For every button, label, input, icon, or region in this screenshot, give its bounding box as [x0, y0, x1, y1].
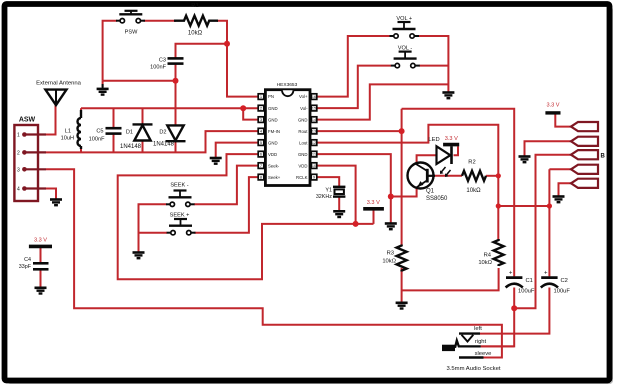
svg-text:Vol+: Vol+: [299, 94, 308, 99]
svg-text:C4: C4: [24, 257, 31, 263]
wire C5 stem top: [113, 108, 115, 128]
ground G8 emitter/pin11: [385, 224, 397, 230]
wire tag1 from 3.3V: [555, 113, 571, 127]
svg-text:SEEK -: SEEK -: [170, 182, 188, 188]
resistor R2: [462, 171, 486, 181]
svg-text:SS8050: SS8050: [426, 196, 448, 202]
svg-text:14: 14: [312, 117, 317, 122]
wire collector to LED anode: [417, 155, 436, 164]
node junction Lout/C link left: [496, 203, 501, 208]
svg-text:1N4148: 1N4148: [153, 141, 175, 147]
node tag3: [571, 150, 598, 159]
svg-text:13: 13: [312, 129, 317, 134]
svg-text:10kΩ: 10kΩ: [188, 31, 203, 37]
svg-text:10kΩ: 10kΩ: [466, 188, 481, 194]
svg-text:PN: PN: [268, 94, 274, 99]
antenna: [45, 90, 66, 106]
svg-text:3.3 V: 3.3 V: [367, 200, 380, 206]
svg-text:PSW: PSW: [125, 30, 138, 36]
ground G11 tag5: [553, 197, 565, 203]
svg-text:Q1: Q1: [426, 188, 435, 194]
svg-text:External Antenna: External Antenna: [36, 81, 82, 87]
capacitor C1 100uF: [506, 270, 535, 294]
wire top rail to chip pin2: [81, 107, 258, 109]
wire L1 bottom lead: [80, 146, 82, 152]
svg-text:D1: D1: [126, 129, 133, 135]
svg-text:GND: GND: [298, 152, 308, 157]
svg-text:4: 4: [17, 187, 20, 193]
svg-text:SEEK +: SEEK +: [170, 213, 190, 219]
svg-text:RCLK: RCLK: [296, 175, 308, 180]
wire C2 bottom to left terminal: [480, 288, 549, 334]
svg-text:C3: C3: [159, 58, 166, 64]
wire tag5 from ground: [559, 183, 572, 195]
wire rail branch to pin3: [243, 108, 257, 119]
svg-text:100uF: 100uF: [518, 288, 535, 294]
wire R1 right to chip pin1: [217, 21, 258, 97]
wire pin5 to ground: [216, 143, 258, 157]
wire C1-C2 top link: [498, 205, 549, 207]
wire R2 right to column: [486, 175, 498, 177]
ground G2 chip pin5: [210, 158, 222, 164]
wire C2 column to tag4: [549, 168, 571, 170]
svg-text:Vol-: Vol-: [300, 106, 308, 111]
svg-text:VDD: VDD: [298, 163, 307, 168]
wire pin12 Lout to R2/R4 column: [317, 125, 499, 239]
wire C3 bottom to D2 column: [175, 64, 177, 126]
node tag2: [571, 137, 598, 146]
svg-text:GND: GND: [268, 106, 278, 111]
crystal Y1 32KHz: [316, 187, 346, 200]
switch SEEK-: [166, 191, 195, 207]
svg-text:Rout: Rout: [298, 129, 308, 134]
power 3.3V P2 LED: [443, 143, 459, 147]
node tag4: [571, 165, 598, 174]
wire D1 bottom lead: [142, 141, 144, 153]
wire pin9 to Y1: [317, 177, 340, 186]
wire ASW pin1 to antenna: [46, 104, 56, 135]
wire VOL+ right to ground column: [419, 36, 449, 92]
switch VOL+: [390, 22, 420, 38]
wire right terminal red: [481, 345, 515, 347]
wire base to R2: [434, 175, 462, 177]
wire VOL- right: [419, 65, 448, 67]
switch SEEK+: [167, 219, 196, 235]
svg-text:1: 1: [17, 133, 20, 139]
wire emitter to ground column: [391, 188, 417, 197]
ground G7 VOL switches: [442, 93, 454, 99]
wire C4 3.3V stem: [40, 246, 42, 263]
capacitor C5: [106, 128, 122, 133]
switch VOL-: [391, 52, 420, 68]
wire tag2 from ground: [525, 141, 572, 155]
wire PSW left to ground/C3 net: [103, 21, 117, 81]
switch PSW: [116, 11, 145, 23]
svg-text:GND: GND: [298, 117, 308, 122]
wire pin16 to VOL+: [317, 36, 391, 97]
wire pin6 VDD long route to 3.3V: [118, 154, 374, 279]
svg-text:Lout: Lout: [299, 140, 308, 145]
node junction emitter/gnd: [388, 194, 394, 200]
svg-text:R4: R4: [484, 252, 492, 258]
svg-text:3.3 V: 3.3 V: [34, 238, 47, 244]
svg-text:3.3 V: 3.3 V: [445, 136, 458, 142]
connector ASW: [14, 117, 46, 202]
wire Rout top to C1 top: [402, 109, 515, 277]
svg-text:3: 3: [17, 167, 20, 173]
svg-text:sleeve: sleeve: [475, 351, 492, 357]
ground G4 SEEK common: [133, 253, 145, 259]
svg-text:C5: C5: [96, 128, 103, 134]
svg-text:R3: R3: [387, 250, 394, 256]
capacitor C2 100uF: [541, 270, 571, 294]
svg-text:R2: R2: [468, 159, 475, 165]
svg-text:15: 15: [312, 106, 317, 111]
svg-text:Seek+: Seek+: [268, 175, 281, 180]
diode D1 1N4148: [133, 124, 153, 140]
svg-text:33pF: 33pF: [19, 264, 32, 270]
connector 3.5mm audio socket: [442, 326, 501, 372]
wire pin14 GND to switch ground rail: [317, 84, 449, 119]
op-amp U1 HEX3653 chip: [258, 82, 317, 186]
svg-text:16: 16: [312, 94, 317, 99]
svg-text:left: left: [474, 326, 482, 332]
svg-text:VOL +: VOL +: [396, 16, 412, 22]
svg-text:3.3 V: 3.3 V: [546, 103, 559, 109]
node junction Rout: [399, 128, 405, 134]
svg-text:100uF: 100uF: [554, 288, 571, 294]
resistor R3: [397, 245, 407, 272]
wire pin8 to SEEK+: [195, 177, 258, 233]
svg-text:Y1: Y1: [325, 188, 332, 194]
svg-text:FM-IN: FM-IN: [268, 129, 280, 134]
svg-text:L1: L1: [65, 128, 71, 134]
node tag1: [571, 122, 598, 131]
ground G3 Y1: [333, 211, 345, 217]
wire pin13 Rout: [317, 130, 402, 132]
svg-text:32KHz: 32KHz: [316, 194, 332, 200]
wire pin11 GND to emitter ground: [317, 154, 391, 222]
wire ASW pin3 to sleeve: [46, 169, 502, 357]
svg-text:+: +: [544, 270, 548, 276]
wire C5 stem bottom: [113, 134, 115, 153]
power 3.3V P4 tag1: [545, 111, 560, 114]
ground G1 PSW net: [97, 84, 109, 95]
wire SEEK left commons to ground: [139, 204, 167, 251]
svg-text:2: 2: [17, 150, 20, 156]
node junction VDD 3.3V: [353, 221, 359, 227]
ground G10 tag2: [519, 157, 531, 163]
svg-text:10: 10: [312, 163, 317, 168]
wire C1 bottom junction: [513, 288, 515, 309]
wire LED cathode to 3.3V: [454, 146, 459, 155]
svg-text:GND: GND: [268, 140, 278, 145]
svg-text:GND: GND: [268, 117, 278, 122]
ground G6 ASW pin4: [50, 200, 62, 206]
svg-text:10uH: 10uH: [61, 135, 74, 141]
svg-text:+: +: [509, 270, 513, 276]
diode D2 1N4148: [166, 125, 186, 141]
ground G9 R3: [396, 303, 408, 309]
ground G5 C4: [35, 288, 47, 294]
resistor R4: [494, 239, 504, 266]
svg-text:VOL -: VOL -: [398, 46, 413, 52]
svg-text:10kΩ: 10kΩ: [478, 260, 492, 266]
node junction rail pin2/pin3: [240, 105, 246, 111]
svg-text:C1: C1: [526, 278, 533, 284]
svg-text:100nF: 100nF: [89, 137, 105, 143]
svg-text:LED: LED: [428, 137, 439, 143]
svg-text:D2: D2: [159, 129, 166, 135]
node junction R1/C3: [224, 41, 230, 47]
wire R3 bottom / ground / link to R4: [401, 268, 403, 302]
svg-text:R1: R1: [191, 3, 198, 9]
wire pin7 to SEEK-: [194, 166, 258, 205]
svg-text:HEX3653: HEX3653: [277, 82, 298, 88]
node tag5: [571, 179, 598, 188]
capacitor C4 33pF: [19, 257, 49, 270]
wire 3.3V stem mid: [373, 211, 375, 224]
inductor L1: [78, 110, 81, 149]
wire pin10 VDD: [317, 166, 356, 224]
wire Rout vertical to R3: [401, 109, 403, 245]
svg-text:VDD: VDD: [268, 152, 277, 157]
wire bottom rail to FM-IN pin4: [46, 131, 258, 152]
node junction R2 right: [496, 173, 501, 178]
wire PSW right to R1: [144, 20, 177, 22]
svg-text:3.5mm Audio Socket: 3.5mm Audio Socket: [446, 366, 500, 372]
svg-text:1N4148: 1N4148: [120, 144, 142, 150]
svg-text:B: B: [601, 154, 606, 160]
wire L1 top lead: [80, 108, 82, 112]
node junction C1 bottom: [511, 305, 517, 311]
svg-text:C2: C2: [561, 278, 568, 284]
power 3.3V P1 above C4: [29, 245, 52, 249]
svg-text:10kΩ: 10kΩ: [382, 258, 396, 264]
svg-text:Seek-: Seek-: [268, 163, 280, 168]
wire D1 top lead: [142, 108, 144, 124]
wire pin15 to VOL-: [317, 66, 392, 109]
svg-text:100nF: 100nF: [150, 65, 166, 71]
svg-text:12: 12: [312, 140, 317, 145]
transistor Q1 SS8050: [408, 163, 449, 202]
capacitor C3: [168, 58, 184, 63]
power 3.3V P3 mid: [363, 207, 384, 211]
wire D2 bottom lead: [175, 142, 177, 153]
wire ASW pin4 to ground: [46, 189, 56, 199]
wire C3 top branch: [176, 44, 228, 58]
LED: [428, 137, 451, 177]
resistor R1: [174, 16, 218, 26]
node junction C3 bottom: [173, 78, 179, 84]
svg-text:right: right: [475, 339, 487, 345]
node junction C2 top: [547, 203, 552, 208]
svg-text:ASW: ASW: [19, 117, 36, 124]
